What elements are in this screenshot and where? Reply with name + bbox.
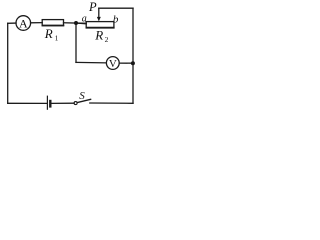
wire bottom left to battery bbox=[8, 102, 47, 104]
svg-text:V: V bbox=[109, 58, 117, 70]
svg-text:2: 2 bbox=[105, 35, 109, 44]
wire node to R2 left terminal bbox=[76, 22, 86, 25]
wire right vertical bbox=[132, 8, 134, 103]
svg-text:A: A bbox=[19, 16, 28, 30]
battery long plate bbox=[46, 96, 48, 109]
slider P vertical wire bbox=[98, 8, 100, 17]
switch S lever bbox=[77, 99, 90, 102]
wire voltmeter to right vertical bbox=[119, 62, 133, 64]
battery short plate bbox=[49, 101, 51, 106]
svg-text:b: b bbox=[113, 13, 119, 25]
svg-text:S: S bbox=[79, 90, 85, 102]
rheostat R2 bottom edge bbox=[87, 27, 114, 29]
svg-text:R: R bbox=[44, 26, 53, 41]
resistor R1 bottom edge bbox=[43, 25, 64, 27]
voltmeter V1 circle bbox=[106, 57, 119, 70]
wire ammeter to R1 bbox=[31, 22, 43, 24]
svg-text:1: 1 bbox=[55, 34, 59, 43]
slider P arrowhead bbox=[97, 17, 101, 22]
switch S pivot bbox=[74, 102, 77, 105]
wire switch to bottom right bbox=[90, 102, 133, 104]
wire voltmeter branch vertical bbox=[75, 23, 77, 62]
resistor R1 body bbox=[42, 20, 63, 26]
junction node on right wire bbox=[131, 61, 135, 65]
wire battery to switch bbox=[52, 102, 75, 104]
wire left vertical bbox=[7, 23, 9, 103]
svg-text:a: a bbox=[82, 13, 87, 24]
rheostat R2 body bbox=[86, 22, 114, 28]
wire voltmeter branch horizontal bbox=[76, 61, 106, 64]
svg-text:P: P bbox=[88, 0, 97, 14]
junction node a dot bbox=[74, 21, 78, 25]
ammeter A1 circle bbox=[16, 16, 31, 31]
wire top-left to ammeter bbox=[8, 22, 16, 24]
svg-text:R: R bbox=[94, 28, 103, 43]
wire R1 to node a bbox=[64, 22, 87, 25]
wire slider top to right bbox=[99, 7, 133, 9]
